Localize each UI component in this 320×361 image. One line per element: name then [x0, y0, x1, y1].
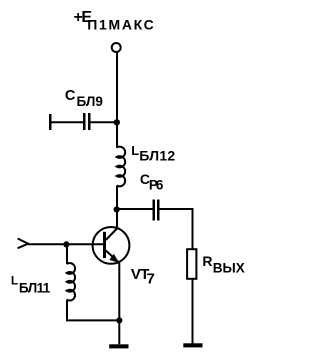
svg-text:С: С [65, 88, 76, 104]
resistor R_ВЫХ body [187, 249, 196, 279]
transistor VT7 emitter arrowhead [109, 254, 118, 263]
wire input to base [28, 243, 103, 245]
svg-text:БЛ11: БЛ11 [19, 280, 51, 295]
svg-text:БЛ9: БЛ9 [77, 94, 103, 109]
wire supply vertical [116, 53, 118, 149]
inductor L_БЛ12 coil [117, 147, 126, 187]
svg-text:L: L [131, 143, 139, 158]
input arrow [18, 239, 29, 249]
wire L_БЛ11 bottom lead with corner to emitter node [67, 300, 119, 321]
transistor VT7 emitter line [106, 251, 120, 263]
node junction collector / C_Р6 [114, 206, 120, 212]
capacitor C_Р6 plates [153, 200, 156, 221]
inductor L_БЛ11 coil [67, 263, 75, 301]
wire coil bottom to collector junction [116, 186, 118, 229]
svg-text:Р6: Р6 [149, 178, 164, 193]
ground bar under emitter [109, 344, 128, 348]
wire emitter down to ground [118, 263, 120, 345]
node junction C_БЛ9 on supply rail [114, 119, 120, 125]
ground bar under R_ВЫХ [183, 343, 202, 347]
svg-text:L: L [11, 274, 18, 288]
svg-text:7: 7 [147, 271, 155, 288]
wire C_БЛ9 left lead [50, 121, 83, 123]
transistor VT7 collector line [106, 229, 117, 241]
transistor VT7 base bar [103, 232, 106, 258]
transistor VT7 body circle [93, 227, 130, 264]
node junction input / L_БЛ11 [63, 241, 69, 247]
wire C_Р6 right lead with corner down to resistor [160, 209, 193, 249]
wire C_Р6 left lead [117, 208, 153, 210]
wire L_БЛ11 top lead [66, 244, 68, 264]
svg-text:ВЫХ: ВЫХ [213, 261, 245, 276]
supply terminal circle [112, 43, 121, 52]
svg-text:БЛ12: БЛ12 [139, 148, 175, 164]
wire C_БЛ9 right lead to junction [91, 121, 118, 123]
wire resistor bottom lead [192, 279, 194, 344]
capacitor C_БЛ9 plates [83, 113, 86, 130]
capacitor C_БЛ9 open-terminal bar [49, 114, 52, 130]
svg-text:R: R [202, 253, 212, 269]
node junction emitter / L_БЛ11 return [116, 317, 122, 323]
svg-text:П1МАКС: П1МАКС [87, 17, 154, 33]
